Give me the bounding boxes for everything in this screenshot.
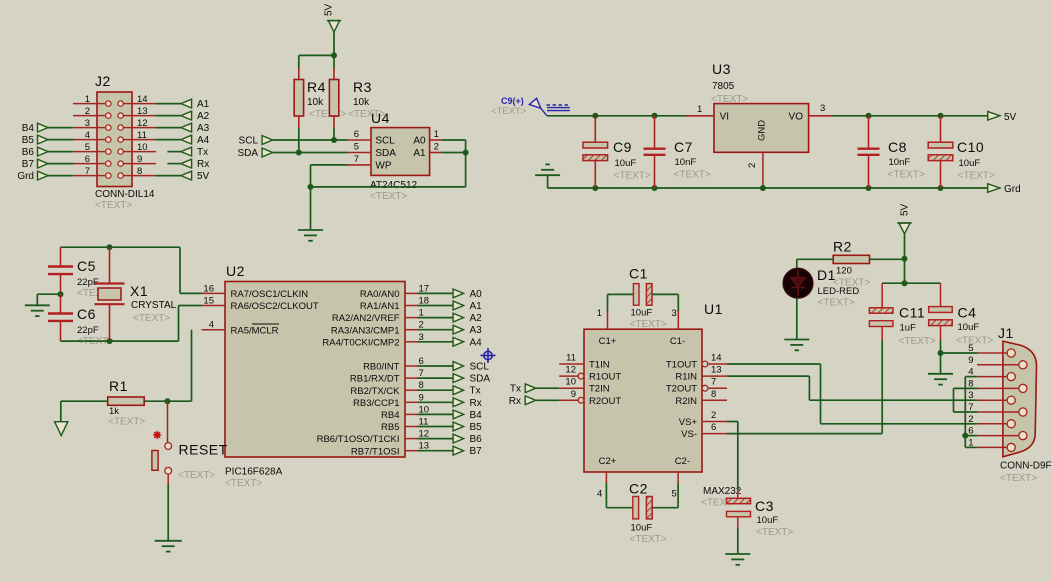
crystal X1 [109,247,111,283]
svg-text:10uF: 10uF [615,158,637,169]
svg-text:<TEXT>: <TEXT> [491,106,527,117]
connector J2 CONN-DIL14 [97,92,132,187]
svg-text:J2: J2 [95,73,111,89]
svg-text:VI: VI [720,112,729,123]
svg-text:C1+: C1+ [599,336,617,347]
svg-text:RA6/OSC2/CLKOUT: RA6/OSC2/CLKOUT [231,301,319,312]
junction [331,52,337,58]
svg-text:5V: 5V [1004,112,1017,123]
svg-text:<TEXT>: <TEXT> [178,470,215,481]
junction [866,113,872,119]
wire [965,376,977,378]
svg-text:RESET: RESET [179,442,228,458]
terminal Grd [38,171,49,180]
wire [191,330,193,402]
IC U2 PIC16F628A [225,282,405,458]
junction [902,280,908,286]
svg-text:RB3/CCP1: RB3/CCP1 [353,398,399,409]
wire [298,68,300,80]
svg-text:J1: J1 [998,325,1014,341]
svg-text:10uF: 10uF [631,523,653,534]
svg-text:A4: A4 [470,337,483,348]
junction [592,185,598,191]
wire [333,68,335,80]
wire [418,317,455,319]
wire [298,55,300,68]
wire [48,151,73,153]
pin 6 RB0/INT of U2 [405,365,418,367]
svg-text:B5: B5 [470,422,483,433]
wire [298,128,300,153]
pin 6 of J2 [73,163,97,165]
wire [904,259,906,284]
pin 13 RB7/T1OSI of U2 [405,450,418,452]
svg-text:8: 8 [711,389,716,400]
svg-text:SCL: SCL [470,362,490,373]
wire [333,128,335,140]
svg-text:B6: B6 [22,147,35,158]
wire [418,305,455,307]
wire [737,528,739,554]
wire [333,116,335,128]
svg-text:6: 6 [354,129,359,140]
wire [418,413,455,415]
wire [348,152,371,154]
svg-text:R1: R1 [109,378,128,394]
capacitor C5 [60,247,62,266]
svg-text:7: 7 [354,154,359,165]
pin 11 RB5 of U2 [405,426,418,428]
pin 9 RB3/CCP1 of U2 [405,401,418,403]
svg-text:CONN-DIL14: CONN-DIL14 [95,189,155,200]
MCLR overline [252,323,279,325]
svg-text:10uF: 10uF [959,158,981,169]
svg-text:Grd: Grd [1004,184,1021,195]
svg-text:C2+: C2+ [599,456,617,467]
svg-text:6: 6 [711,422,716,433]
svg-text:<TEXT>: <TEXT> [133,313,170,324]
wire button to ground [167,474,169,484]
svg-text:<TEXT>: <TEXT> [370,191,407,202]
svg-text:A2: A2 [197,111,210,122]
pin 10 RB4 of U2 [405,413,418,415]
svg-text:RB2/TX/CK: RB2/TX/CK [350,386,400,397]
wire [48,127,73,129]
svg-text:5: 5 [968,343,973,354]
wire [737,422,739,491]
wire to ground [37,293,60,295]
svg-text:<TEXT>: <TEXT> [1000,473,1037,484]
pin 2 VS+ of U1 [702,421,727,423]
svg-text:10uF: 10uF [757,515,779,526]
svg-text:<TEXT>: <TEXT> [108,417,145,428]
pin 5 of J1 [977,352,1007,354]
svg-text:<TEXT>: <TEXT> [899,336,936,347]
svg-text:2: 2 [747,163,758,168]
svg-text:R4: R4 [307,79,326,95]
wire WP to ground net [311,164,348,166]
svg-text:<TEXT>: <TEXT> [956,336,993,347]
pin 8 of J2 [132,175,156,177]
svg-text:<TEXT>: <TEXT> [756,527,793,538]
terminal 5V (right) [988,112,1000,121]
wire [677,294,679,311]
pin 5 of J2 [73,151,97,153]
capacitor C4 [940,283,942,306]
wire [311,186,466,188]
svg-text:11: 11 [137,130,147,141]
ground [784,339,809,341]
wire [167,151,180,153]
wire [796,259,798,269]
pin 6 VS- of U1 [702,433,727,435]
svg-text:VS-: VS- [681,429,697,440]
svg-text:C8: C8 [888,139,907,155]
junction [107,244,113,250]
wire 5V branch to C11/C4 [882,282,940,284]
wire [418,438,455,440]
svg-text:9: 9 [968,355,973,366]
svg-text:A0: A0 [413,136,426,147]
svg-text:7: 7 [85,166,90,177]
wire [348,139,371,141]
junction [902,256,908,262]
svg-text:14: 14 [711,353,722,364]
pin 8 RB2/TX/CK of U2 [405,389,418,391]
ground [928,373,953,375]
svg-text:T2IN: T2IN [589,384,610,395]
wire [809,399,977,401]
pin 9 of J1 [977,364,1019,366]
pin 8 of J1 [977,387,1019,389]
svg-text:10uF: 10uF [958,322,980,333]
wire [965,446,977,448]
svg-text:13: 13 [711,365,722,376]
wire R1 left [61,400,108,402]
pin 11 of J2 [132,139,156,141]
svg-text:6: 6 [85,154,90,165]
svg-text:1uF: 1uF [900,323,917,334]
junction [296,150,302,156]
junction [938,350,944,356]
ground [155,540,182,542]
pin 17 RA0/AN0 of U2 [405,292,418,294]
svg-text:CRYSTAL: CRYSTAL [131,300,177,311]
junction [107,338,113,344]
wire [686,115,714,117]
svg-text:A3: A3 [470,325,483,336]
pin 6 of J1 [977,435,1019,437]
svg-text:3: 3 [672,308,677,319]
terminal B7 [38,159,49,168]
svg-text:10: 10 [565,377,576,388]
wire C2 right [653,507,679,509]
svg-text:RB0/INT: RB0/INT [363,362,400,373]
svg-text:1: 1 [697,104,702,115]
wire [156,175,181,177]
wire [941,352,978,354]
terminal B4 [38,123,49,132]
ground [25,304,50,306]
LED D1 [783,268,813,298]
svg-text:10nF: 10nF [675,157,697,168]
svg-text:Rx: Rx [197,159,209,170]
pin 13 R1IN of U1 [702,375,727,377]
svg-text:U1: U1 [704,301,723,317]
svg-text:<TEXT>: <TEXT> [630,534,667,545]
wire [465,153,467,187]
svg-text:C9: C9 [613,139,632,155]
pin 14 of J2 [132,103,156,105]
svg-text:2: 2 [711,410,716,421]
svg-text:RA3/AN3/CMP1: RA3/AN3/CMP1 [331,325,400,336]
svg-text:1k: 1k [109,406,119,417]
svg-text:C10: C10 [957,139,984,155]
terminal B5 [38,135,49,144]
cursor crosshair [481,348,496,363]
svg-text:U4: U4 [371,110,390,126]
svg-text:4: 4 [209,320,214,331]
regulator U3 7805 [714,104,809,153]
svg-text:RA0/AN0: RA0/AN0 [360,289,400,300]
wire [156,115,181,117]
pin 7 of J2 [73,175,97,177]
svg-text:B4: B4 [470,410,483,421]
svg-text:RB1/RX/DT: RB1/RX/DT [350,374,400,385]
wire [418,292,455,294]
wire R1 right [144,400,191,402]
wire [36,294,38,305]
terminal B6 [38,147,49,156]
wire [430,139,442,141]
wire [418,389,455,391]
wire [940,340,942,353]
svg-text:C6: C6 [77,306,96,322]
svg-text:5: 5 [672,489,677,500]
svg-text:R2: R2 [833,239,852,255]
svg-text:4: 4 [597,489,602,500]
wire [881,340,883,434]
wire [48,139,73,141]
wire [809,115,832,117]
pin 15 RA6/OSC2/CLKOUT of U2 [202,305,226,307]
svg-text:C1-: C1- [670,336,685,347]
svg-text:11: 11 [566,353,576,364]
pin 2 GND of U3 [762,152,764,188]
svg-text:9: 9 [571,389,576,400]
svg-text:R1OUT: R1OUT [589,372,621,383]
wire [60,401,62,422]
svg-text:LED-RED: LED-RED [818,286,860,297]
svg-text:<TEXT>: <TEXT> [958,171,995,182]
svg-text:3: 3 [968,390,973,401]
wire crystal top [61,246,181,248]
capacitor C1 [607,311,609,329]
svg-text:U3: U3 [712,61,731,77]
svg-text:C3: C3 [755,498,774,514]
junction [308,184,314,190]
pin 12 R1OUT of U1 [559,375,578,377]
junction [463,150,469,156]
wire crystal bottom [61,340,179,342]
capacitor C10 [940,116,942,142]
wire C1 left [608,293,634,295]
ground [725,553,750,555]
junction [652,185,658,191]
IC U1 MAX232 [584,329,702,472]
wire VS- to C11 [727,433,882,435]
wire SDA [273,152,348,154]
svg-text:15: 15 [203,296,214,307]
svg-text:AT24C512: AT24C512 [370,180,418,191]
svg-text:VS+: VS+ [679,417,698,428]
svg-text:R3: R3 [353,79,372,95]
ground rail [548,187,988,189]
wire [418,329,455,331]
svg-text:Grd: Grd [17,171,34,182]
pin 3 of J2 [73,127,97,129]
wire [179,247,181,293]
connector J1 CONN-D9F [1003,341,1037,457]
svg-text:B7: B7 [22,159,35,170]
svg-text:RB7/T1OSI: RB7/T1OSI [351,446,400,457]
wire C1 right [652,293,678,295]
resistor R4 [294,80,303,117]
wire [964,377,966,448]
wire R1IN to J1 pin3 [727,375,809,377]
svg-text:C7: C7 [674,139,693,155]
svg-text:10nF: 10nF [889,157,911,168]
wire [333,32,335,55]
svg-text:C4: C4 [958,305,977,321]
svg-text:7: 7 [711,377,716,388]
svg-text:Tx: Tx [197,147,208,158]
pin 9 of J2 [132,163,156,165]
svg-text:B4: B4 [22,123,35,134]
pin 14 T1OUT of U1 [702,361,708,367]
wire [418,401,455,403]
svg-text:3: 3 [85,118,90,129]
wire [310,165,312,187]
wire [310,187,312,230]
svg-text:A0: A0 [470,289,483,300]
svg-text:B6: B6 [470,434,483,445]
svg-text:5: 5 [85,142,90,153]
svg-text:R1IN: R1IN [675,372,697,383]
ground [535,174,560,176]
svg-text:SCL: SCL [375,136,395,147]
svg-text:RA2/AN2/VREF: RA2/AN2/VREF [332,313,400,324]
wire [465,140,467,153]
wire [536,399,560,401]
svg-text:C9(+): C9(+) [501,96,524,106]
svg-text:5: 5 [354,142,359,153]
svg-text:<TEXT>: <TEXT> [674,170,711,181]
terminal A1 [181,99,192,108]
svg-text:10k: 10k [307,97,324,108]
svg-text:13: 13 [137,106,148,117]
pin 12 of J2 [132,127,156,129]
terminal Tx (J2 side) [181,147,192,156]
junction [962,433,968,439]
svg-text:1: 1 [85,94,90,105]
svg-text:12: 12 [565,365,576,376]
svg-text:Tx: Tx [470,386,481,397]
wire R2 right [870,258,905,260]
svg-text:C11: C11 [899,305,925,321]
pin 7 of J1 [977,411,1019,413]
wire [418,365,455,367]
svg-text:SDA: SDA [237,148,258,159]
pin 2 of J2 [73,115,97,117]
terminal Grd (right) [988,184,1000,193]
svg-text:D1: D1 [817,267,836,283]
capacitor C6 [60,294,62,313]
svg-text:R2OUT: R2OUT [589,396,621,407]
wire [605,483,607,508]
svg-text:T2OUT: T2OUT [666,384,697,395]
pin 10 T2IN of U1 [559,387,584,389]
wire [677,483,679,508]
svg-text:A3: A3 [197,123,210,134]
wire A0 down to A1 [442,139,466,141]
svg-text:<TEXT>: <TEXT> [630,319,667,330]
pin 3 of J1 [977,399,1007,401]
svg-text:1: 1 [434,129,439,140]
junction [760,185,766,191]
svg-text:X1: X1 [130,283,148,299]
svg-text:RB5: RB5 [381,422,399,433]
wire [167,163,180,165]
wire [156,139,181,141]
svg-text:A1: A1 [413,148,426,159]
wire [156,103,181,105]
pin 9 R2OUT of U1 [559,399,578,401]
svg-text:5V: 5V [900,203,911,216]
wire [167,484,169,541]
svg-text:16: 16 [203,283,214,294]
svg-text:4: 4 [85,130,90,141]
IC U4 AT24C512 [371,128,430,176]
pin 2 of J1 [977,423,1007,425]
svg-text:Tx: Tx [510,384,521,395]
pin 4 of J2 [73,139,97,141]
wire [418,377,455,379]
pin 11 T1IN of U1 [559,363,584,365]
terminal Rx (J2 side) [181,159,192,168]
svg-text:5V: 5V [324,3,335,16]
svg-text:14: 14 [137,94,148,105]
svg-text:Rx: Rx [509,396,521,407]
wire [607,294,609,311]
junction [866,185,872,191]
svg-text:Rx: Rx [470,398,482,409]
svg-text:8: 8 [137,166,142,177]
wire T1OUT to J1 pin2 [727,363,821,365]
pin 1 of J1 [977,446,1007,448]
wire [953,388,955,412]
svg-text:RA7/OSC1/CLKIN: RA7/OSC1/CLKIN [231,289,309,300]
svg-text:5V: 5V [197,171,210,182]
wire input rail [547,115,686,117]
resistor R2 [833,255,869,263]
svg-text:WP: WP [375,160,391,171]
wire output rail [832,115,988,117]
svg-text:RB4: RB4 [381,410,399,421]
pin 4 of J1 [977,376,1007,378]
wire OSC2 [179,305,202,307]
capacitor C11 [881,283,883,308]
